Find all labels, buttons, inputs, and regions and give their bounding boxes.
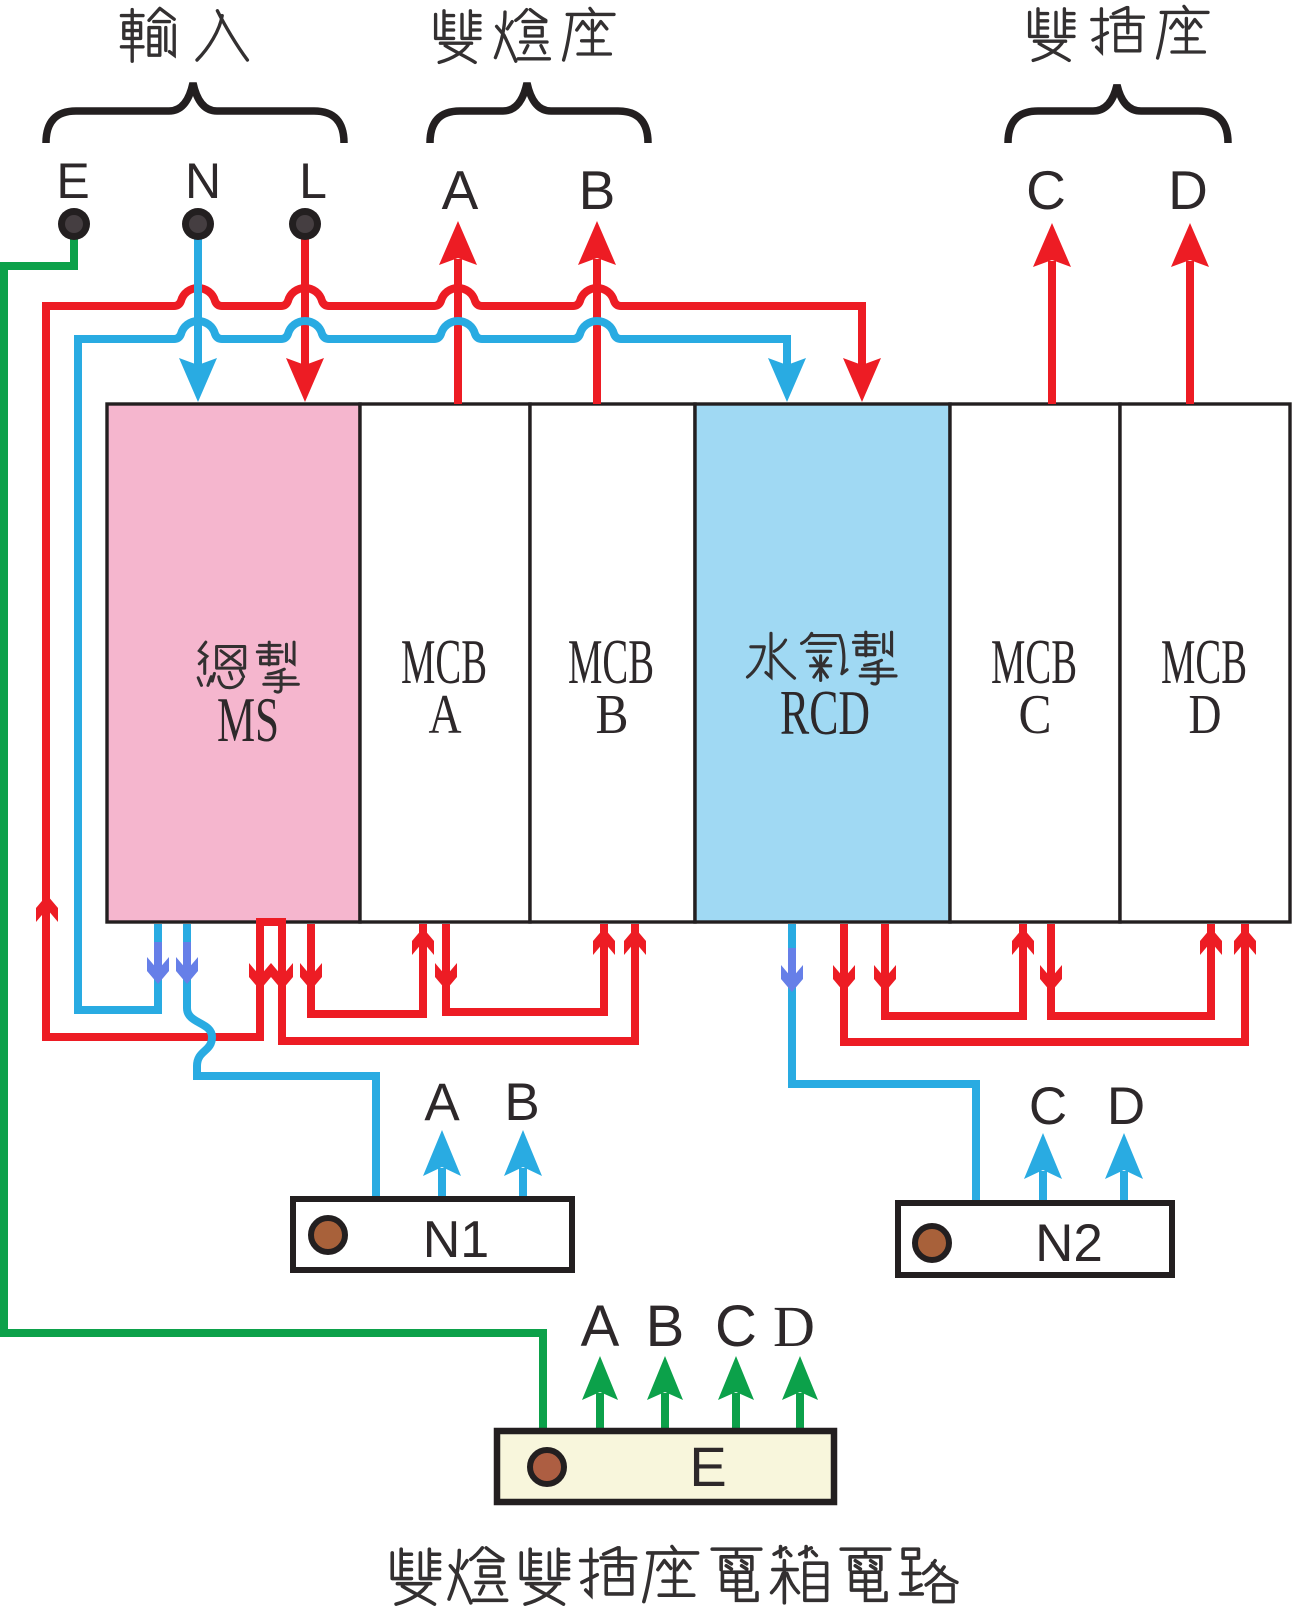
svg-text:C: C <box>1019 684 1052 746</box>
terminal N <box>182 208 214 240</box>
arrowhead blue N2 C up <box>1024 1133 1062 1179</box>
wire green E-bar stub A <box>596 1393 604 1429</box>
arrowhead red up MCB B feed2 <box>624 928 646 955</box>
BOXES <box>107 404 1290 922</box>
wire red bridge bar at MS bottom <box>256 918 286 926</box>
wire green E-bar stub D <box>796 1393 804 1429</box>
title char 6 電 <box>712 1549 761 1600</box>
svg-text:D: D <box>1168 159 1208 221</box>
svg-text:N1: N1 <box>423 1211 489 1269</box>
arrowhead green E-bar C up <box>718 1356 754 1400</box>
N2 terminal circle <box>915 1226 949 1260</box>
svg-text:D: D <box>1189 684 1222 746</box>
title char 1 雙 <box>392 1549 439 1604</box>
MCB D box <box>1120 404 1290 922</box>
wire green E-bar stub C <box>732 1393 740 1429</box>
title char 3 雙 <box>521 1549 568 1604</box>
arrowhead red socket C up <box>1033 223 1071 267</box>
svg-text:N2: N2 <box>1035 1214 1103 1273</box>
svg-text:MS: MS <box>217 685 279 755</box>
svg-text:B: B <box>579 159 616 221</box>
arrowhead blue bus into RCD top <box>768 358 806 402</box>
wire red socket D output <box>1186 261 1194 404</box>
terminal L <box>289 208 321 240</box>
wire red lamp A output <box>454 259 462 404</box>
svg-text:C: C <box>715 1294 757 1359</box>
neutral bar N1 <box>293 1199 572 1270</box>
label che of 總掣 <box>257 642 298 692</box>
N1 terminal circle <box>311 1218 345 1252</box>
ARROWHEADS <box>36 221 1256 1400</box>
title char 7 箱 <box>772 1547 827 1603</box>
arrowhead green E-bar A up <box>582 1356 618 1400</box>
svg-text:C: C <box>1026 159 1066 221</box>
arrowhead red down MS out3 <box>300 963 322 990</box>
arrowhead periwinkle MS N out1 <box>147 942 169 984</box>
terminal E <box>58 208 90 240</box>
wire red MS out3 to MCB A feed <box>311 924 423 1014</box>
arrowhead red down RCD out2 <box>874 965 896 992</box>
wire red RCD out1 to MCB D feed2 <box>844 924 1245 1042</box>
RCD box <box>695 404 950 922</box>
wire red MCB C link to MCB D feed1 <box>1051 924 1211 1016</box>
MCB A box <box>360 404 530 922</box>
wire L red from terminal into MS top <box>301 236 309 366</box>
arrowhead green E-bar D up <box>782 1356 818 1400</box>
arrowhead red down MS out2 <box>271 963 293 990</box>
label ru of 輸入 input <box>197 11 247 60</box>
arrowhead blue N1 A up <box>423 1130 461 1176</box>
neutral bar N2 <box>898 1203 1172 1275</box>
label cha of 雙插座 <box>1092 8 1144 52</box>
MCB B box <box>530 404 695 922</box>
arrowhead red up MCB D feed2 <box>1234 928 1256 955</box>
svg-text:A: A <box>429 684 462 746</box>
wire red RCD out2 to MCB C feed <box>885 924 1023 1016</box>
wire blue RCD N out to N2 bar <box>792 924 976 1200</box>
svg-text:A: A <box>581 1294 620 1359</box>
label qi of 水氣掣 <box>802 633 847 680</box>
earth bar E <box>497 1431 834 1502</box>
wire red lamp B output <box>593 259 601 404</box>
svg-text:D: D <box>1107 1077 1145 1136</box>
title char 5 座 <box>644 1547 698 1602</box>
wire red socket C output <box>1048 261 1056 404</box>
E bar terminal circle <box>530 1450 564 1484</box>
brace over lamp group A B <box>430 83 648 143</box>
title char 4 插 <box>581 1548 636 1595</box>
arrowhead red up MCB B feed1 <box>593 928 615 955</box>
wire green E-bar stub B <box>661 1393 669 1429</box>
label shuang of 雙燈座 lamp group <box>436 11 480 63</box>
arrowhead green E-bar B up <box>647 1356 683 1400</box>
svg-text:B: B <box>646 1294 685 1359</box>
svg-text:D: D <box>773 1294 815 1359</box>
label shu of 輸入 input <box>121 8 174 61</box>
label deng of 雙燈座 <box>495 10 549 62</box>
title char 8 電 <box>841 1549 890 1600</box>
title char 2 燈 <box>449 1548 507 1603</box>
wire red bus: MS out up left side, top bus with hops, down into RCD <box>46 288 862 1037</box>
wire blue N1 stub A <box>438 1168 446 1199</box>
arrowhead red socket D up <box>1171 223 1209 267</box>
arrowhead red up MCB C feed <box>1012 928 1034 955</box>
wire blue N2 stub D <box>1120 1171 1128 1202</box>
svg-text:L: L <box>299 153 327 209</box>
arrowhead red up mid left vertical <box>36 895 58 922</box>
arrowhead red lamp B up <box>578 221 616 265</box>
arrowhead red up MCB D feed1 <box>1200 928 1222 955</box>
arrowhead red bus into RCD top <box>843 358 881 402</box>
arrowhead red down RCD out1 <box>833 965 855 992</box>
wire blue N2 stub C <box>1039 1171 1047 1202</box>
arrowhead periwinkle RCD N out <box>781 948 803 992</box>
svg-text:B: B <box>504 1073 539 1132</box>
wire red MS out2 to MCB B feed2 <box>282 920 635 1041</box>
wire blue MS N out2 to N1 bar with s-curve over red <box>187 924 376 1196</box>
arrowhead blue N2 D up <box>1105 1133 1143 1179</box>
label shui of 水氣掣 RCD <box>747 633 794 678</box>
arrowhead red down MCB A link <box>435 963 457 990</box>
label zuo of 雙燈座 <box>564 8 614 60</box>
svg-text:A: A <box>424 1073 460 1132</box>
wire red MCB A link to MCB B feed1 <box>446 924 604 1012</box>
svg-text:RCD: RCD <box>780 678 870 748</box>
wire blue N1 stub B <box>519 1168 527 1199</box>
arrowhead red down MS out1 <box>249 963 271 990</box>
label shuang of 雙插座 socket group <box>1030 9 1074 61</box>
MCB C box <box>950 404 1120 922</box>
arrowhead blue N1 B up <box>504 1130 542 1176</box>
arrowhead red up MCB A feed <box>412 928 434 955</box>
label zuo of 雙插座 <box>1158 6 1208 58</box>
arrowhead blue N into MS top <box>179 358 217 402</box>
TERMINALS AND BARS <box>46 83 1228 1502</box>
svg-text:E: E <box>689 1435 726 1498</box>
label che2 of 水氣掣 <box>853 632 896 684</box>
brace over input E N L <box>46 83 344 143</box>
svg-text:N: N <box>185 153 221 209</box>
arrowhead red L into MS top <box>286 358 324 402</box>
arrowhead red lamp A up <box>439 221 477 265</box>
arrowhead periwinkle MS N out2 <box>176 942 198 984</box>
wire blue bus: MS N out, left side up, top bus with hops, down into RCD <box>78 321 787 1010</box>
label zong of 總掣 main switch <box>198 642 244 688</box>
svg-text:A: A <box>442 159 479 221</box>
brace over socket group C D <box>1008 85 1228 143</box>
main switch MS box <box>107 404 360 922</box>
svg-text:E: E <box>56 153 89 209</box>
svg-text:C: C <box>1029 1077 1067 1136</box>
svg-text:B: B <box>596 684 629 746</box>
wire earth E green: terminal E down, left, down left side, right to E-bar <box>4 236 543 1432</box>
wire N blue from terminal into MS top <box>194 236 202 366</box>
arrowhead red down MCB C link <box>1040 965 1062 992</box>
title char 9 路 <box>901 1549 957 1601</box>
